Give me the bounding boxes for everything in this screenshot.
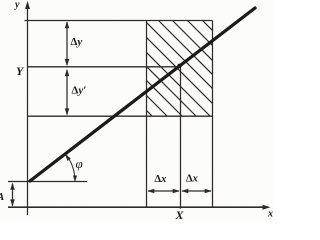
svg-text:x: x xyxy=(267,209,273,220)
dim arrow dx left xyxy=(148,190,179,192)
svg-text:Δy: Δy xyxy=(71,36,83,48)
angle phi arc xyxy=(66,154,75,181)
dim arrow dx right xyxy=(182,190,211,192)
wire: vertical at X+dx xyxy=(212,21,214,208)
svg-text:Δx: Δx xyxy=(186,174,198,185)
svg-text:Δy′: Δy′ xyxy=(72,85,87,97)
dim arrow A xyxy=(12,184,14,206)
svg-text:A: A xyxy=(0,191,4,203)
node: Y level line xyxy=(28,66,181,68)
main line y=A+Bx xyxy=(30,8,255,181)
wire: vertical at X-dx xyxy=(146,21,148,208)
paper texture xyxy=(0,0,274,220)
svg-text:X: X xyxy=(175,208,185,220)
wire: x-axis xyxy=(8,206,268,208)
node: point on line at X xyxy=(177,64,181,68)
svg-text:φ: φ xyxy=(76,156,83,171)
dim arrow dy xyxy=(66,22,68,65)
hatched rectangle region xyxy=(128,0,232,196)
dim arrow dy-prime xyxy=(66,70,68,115)
node: A level tick line xyxy=(8,181,87,183)
wire: y-axis xyxy=(27,3,29,215)
node: middle box line xyxy=(28,115,213,117)
node: top box line xyxy=(25,20,213,22)
svg-text:y: y xyxy=(14,0,20,11)
wire: vertical at X xyxy=(180,65,182,208)
svg-text:Δx: Δx xyxy=(155,174,167,185)
